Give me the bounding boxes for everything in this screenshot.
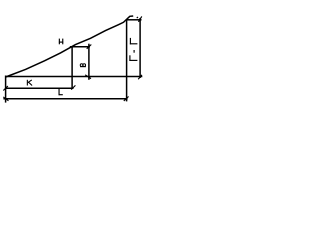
tick at bottom of Г-Г dimension: [138, 75, 142, 79]
label Г - Г : second Г: [129, 55, 137, 61]
platform top extension line: [126, 19, 142, 21]
platform front vertical: [126, 19, 128, 101]
tick at right of L dimension: [124, 97, 129, 101]
label Г - Г : hyphen: [133, 50, 135, 53]
dimension line for label в: [88, 44, 90, 80]
height dimension line for label Г-Г: [139, 18, 141, 78]
label K: [27, 80, 32, 86]
stray dot near top tick of Г-Г dimension: [137, 17, 138, 18]
K dimension line: [5, 87, 74, 89]
background: [0, 0, 156, 119]
tick at bottom of в dimension: [85, 75, 91, 79]
tick at top of в dimension: [87, 45, 92, 49]
ground line: [5, 76, 142, 78]
tick at left of L dimension: [3, 97, 8, 101]
label в (rotated 90° ccw): [80, 64, 86, 67]
L dimension line: [3, 98, 127, 100]
label Г - Г (rotated 90° ccw) : first Г: [130, 38, 138, 45]
tick at right of K dimension: [71, 85, 75, 89]
left extension line: [5, 76, 7, 103]
ramp slope line: [6, 16, 134, 77]
box top extension line: [70, 46, 90, 48]
tick at left of K dimension: [3, 86, 8, 91]
tick at top of Г-Г dimension: [138, 16, 141, 21]
label H: [59, 39, 63, 45]
label L: [59, 88, 63, 95]
box left extension vertical: [71, 46, 73, 89]
